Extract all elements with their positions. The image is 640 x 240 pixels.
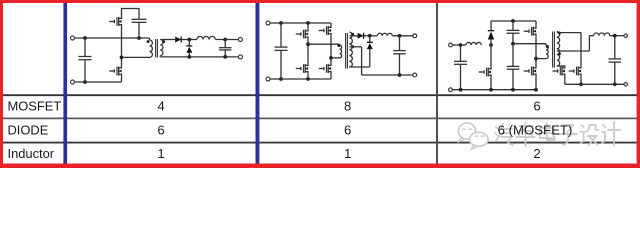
- svg-text:6: 6: [157, 122, 164, 137]
- svg-text:2: 2: [533, 146, 540, 161]
- svg-text:MOSFET: MOSFET: [8, 99, 62, 114]
- svg-text:1: 1: [157, 146, 164, 161]
- svg-text:1: 1: [344, 146, 351, 161]
- svg-text:8: 8: [344, 99, 351, 114]
- svg-text:DIODE: DIODE: [8, 122, 49, 137]
- svg-text:6: 6: [344, 122, 351, 137]
- svg-text:6 (MOSFET): 6 (MOSFET): [498, 122, 573, 137]
- svg-text:Inductor: Inductor: [8, 146, 55, 161]
- svg-text:4: 4: [157, 99, 164, 114]
- svg-text:6: 6: [533, 99, 540, 114]
